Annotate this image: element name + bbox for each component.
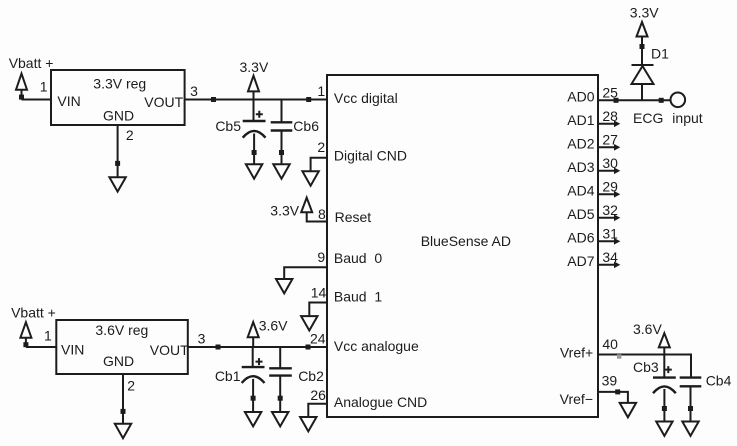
- capacitor Cb5 plus sign: [256, 111, 263, 118]
- svg-text:Vbatt +: Vbatt +: [11, 305, 56, 321]
- svg-text:Cb6: Cb6: [293, 118, 319, 134]
- svg-text:3.3V: 3.3V: [240, 59, 269, 75]
- svg-text:Vcc analogue: Vcc analogue: [334, 338, 419, 354]
- svg-text:GND: GND: [103, 107, 134, 123]
- svg-text:Digital CND: Digital CND: [334, 148, 407, 164]
- wire pin 2 stub: [311, 158, 327, 172]
- junction below Cb2: [278, 396, 283, 401]
- wire AD1 stub: [598, 123, 615, 125]
- wire AD3 stub: [598, 170, 615, 172]
- svg-text:9: 9: [317, 249, 325, 265]
- svg-text:Vref+: Vref+: [560, 344, 593, 360]
- wire Vbatt to VIN (top): [22, 99, 52, 101]
- svg-text:BlueSense AD: BlueSense AD: [421, 233, 511, 249]
- svg-text:ECG: ECG: [633, 110, 663, 126]
- junction on U3 GND stem: [121, 409, 126, 414]
- pin arrow AD3: [614, 168, 620, 175]
- capacitor Cb5 top plate: [243, 120, 266, 122]
- capacitor Cb2 plate 2: [269, 374, 292, 376]
- svg-text:27: 27: [602, 131, 618, 147]
- svg-text:AD1: AD1: [567, 112, 594, 128]
- svg-text:24: 24: [310, 330, 326, 346]
- capacitor Cb2 top stem: [279, 347, 281, 368]
- svg-text:40: 40: [602, 336, 618, 352]
- capacitor Cb3 bottom stem: [663, 389, 665, 422]
- svg-text:Vbatt +: Vbatt +: [9, 55, 54, 71]
- capacitor Cb5 bottom stem: [253, 134, 255, 165]
- pin arrow AD2: [614, 144, 620, 151]
- wire AD5 stub: [598, 217, 615, 219]
- capacitor Cb1 plus sign: [256, 358, 263, 365]
- svg-text:VOUT: VOUT: [150, 342, 189, 358]
- capacitor Cb6 plate 2: [271, 129, 293, 131]
- ground (Baud 1): [301, 316, 317, 330]
- wire U1 VOUT to Vcc digital rail: [185, 99, 327, 101]
- junction below Cb5: [252, 150, 257, 155]
- svg-text:VIN: VIN: [57, 93, 80, 109]
- svg-text:32: 32: [602, 202, 618, 218]
- svg-text:39: 39: [602, 373, 618, 389]
- ground (Digital CND): [302, 171, 318, 185]
- power flag arrow Vbatt (top): [16, 74, 27, 90]
- svg-text:Vcc digital: Vcc digital: [334, 90, 398, 106]
- svg-text:Analogue CND: Analogue CND: [334, 394, 427, 410]
- ground (Baud 0): [276, 279, 292, 293]
- regulator U1 3.3V reg body: [51, 70, 185, 125]
- regulator U3 3.6V reg body: [56, 320, 188, 374]
- wire AD7 stub: [598, 264, 615, 266]
- svg-text:3: 3: [198, 331, 206, 347]
- svg-text:14: 14: [311, 285, 327, 301]
- power flag arrow 3.6V (bottom middle): [248, 322, 259, 337]
- capacitor Cb1 top plate: [242, 366, 265, 368]
- svg-text:2: 2: [126, 127, 134, 143]
- power flag arrow Vbatt (bottom): [20, 322, 31, 338]
- junction on 3.6V rail (left): [216, 345, 221, 350]
- svg-text:2: 2: [127, 378, 135, 394]
- wire 3.3V to D1: [641, 37, 643, 66]
- wire Vbatt stem (top): [21, 90, 23, 100]
- svg-text:Cb3: Cb3: [633, 359, 659, 375]
- capacitor Cb4 plate 2: [680, 385, 702, 387]
- svg-text:Cb1: Cb1: [215, 368, 241, 384]
- svg-text:1: 1: [44, 327, 52, 343]
- power flag arrow 3.3V (top right): [637, 22, 648, 37]
- svg-text:Baud 1: Baud 1: [334, 289, 382, 305]
- capacitor Cb4 plate 1: [680, 376, 702, 378]
- svg-text:Vref−: Vref−: [560, 391, 593, 407]
- capacitor Cb5 curved plate: [243, 131, 266, 138]
- capacitor Cb6 bottom stem: [281, 131, 283, 165]
- wire AD2 stub: [598, 146, 615, 148]
- power flag arrow 3.3V (top middle): [248, 76, 259, 92]
- capacitor Cb4 bottom stem: [690, 386, 692, 421]
- svg-text:3: 3: [190, 83, 198, 99]
- ground (Analogue CND): [300, 417, 316, 431]
- ground (below Cb1): [245, 412, 261, 426]
- junction below Cb4: [688, 406, 693, 411]
- junction below Cb6: [279, 150, 284, 155]
- svg-text:Baud 0: Baud 0: [334, 250, 382, 266]
- capacitor Cb6 plate 1: [271, 121, 293, 123]
- svg-text:26: 26: [310, 387, 326, 403]
- capacitor Cb3 top plate: [653, 376, 676, 378]
- terminal circle ECG input: [671, 93, 686, 108]
- diode D1 cathode bar: [632, 64, 654, 66]
- junction on Vref- stub: [615, 389, 620, 394]
- svg-text:3.6V: 3.6V: [259, 318, 288, 334]
- svg-text:1: 1: [317, 83, 325, 99]
- wire U1 GND stem: [117, 125, 119, 177]
- junction on U1 GND stem: [115, 161, 120, 166]
- svg-text:28: 28: [602, 108, 618, 124]
- capacitor Cb3 curved plate: [653, 386, 676, 393]
- power flag arrow 3.3V (Reset): [301, 198, 312, 213]
- capacitor Cb5 top stem: [253, 100, 255, 122]
- IC U2 BlueSense AD body: [327, 75, 598, 417]
- wire pin 26 stub: [308, 404, 327, 417]
- wire Vref- stub: [598, 392, 628, 403]
- svg-text:34: 34: [602, 249, 618, 265]
- svg-text:3.6V reg: 3.6V reg: [95, 322, 148, 338]
- wire Baud 0 stub: [284, 267, 327, 279]
- ground (below Cb5): [246, 164, 262, 178]
- svg-text:3.6V: 3.6V: [633, 321, 662, 337]
- ground (below U3): [115, 424, 131, 438]
- capacitor Cb6 top stem: [281, 100, 283, 123]
- wire AD0 stub: [598, 99, 671, 101]
- svg-text:3.3V: 3.3V: [270, 203, 299, 219]
- svg-text:AD6: AD6: [567, 229, 594, 245]
- capacitor Cb1 curved plate: [242, 376, 265, 383]
- junction on D1 top stem: [640, 44, 645, 49]
- ground (below Cb2): [272, 412, 288, 426]
- svg-text:VIN: VIN: [61, 341, 84, 357]
- svg-text:AD7: AD7: [567, 253, 594, 269]
- ground (below U1): [109, 177, 125, 191]
- pin arrow AD4: [614, 191, 620, 198]
- svg-text:GND: GND: [103, 353, 134, 369]
- svg-text:AD2: AD2: [567, 135, 594, 151]
- svg-text:AD0: AD0: [567, 88, 594, 104]
- capacitor Cb1 bottom stem: [252, 379, 254, 412]
- capacitor Cb2 bottom stem: [279, 376, 281, 412]
- svg-text:8: 8: [318, 206, 326, 222]
- pin arrow AD5: [614, 215, 620, 222]
- wire Baud 1 stub: [309, 303, 327, 317]
- svg-text:3.3V: 3.3V: [630, 4, 659, 20]
- ground (below Cb3): [656, 422, 672, 436]
- svg-text:1: 1: [40, 79, 48, 95]
- wire AD4 stub: [598, 193, 615, 195]
- junction below Cb1: [251, 396, 256, 401]
- ground (Vref-): [620, 403, 636, 417]
- diode D1 triangle: [632, 66, 654, 84]
- svg-text:Reset: Reset: [335, 209, 372, 225]
- wire Vbatt stem (bottom): [25, 338, 27, 347]
- junction on 3.6V rail (right): [306, 345, 311, 350]
- junction (grey) on Vref+ wire: [617, 354, 621, 358]
- pin arrow AD7: [614, 262, 620, 269]
- junction at Vbatt (bottom): [23, 342, 28, 347]
- svg-text:VOUT: VOUT: [144, 94, 183, 110]
- power flag arrow 3.6V (bottom right): [659, 333, 670, 347]
- svg-text:D1: D1: [651, 46, 669, 62]
- wire Reset stub: [307, 212, 327, 221]
- junction on AD0 wire (left): [614, 98, 619, 103]
- wire 3.3V flag stem: [253, 91, 255, 99]
- ground (below Cb4): [682, 422, 698, 436]
- junction at Vbatt (top): [19, 95, 24, 100]
- svg-text:31: 31: [602, 225, 618, 241]
- wire Vref+ net: [598, 355, 691, 378]
- svg-text:Cb4: Cb4: [706, 372, 732, 388]
- svg-text:2: 2: [317, 139, 325, 155]
- capacitor Cb2 plate 1: [269, 367, 292, 369]
- svg-text:3.3V reg: 3.3V reg: [93, 75, 146, 91]
- pin arrow AD6: [614, 238, 620, 245]
- wire D1 to AD0 net: [641, 84, 643, 100]
- wire Vbatt to VIN (bottom): [26, 346, 56, 348]
- wire U3 VOUT to Vcc analogue rail: [188, 346, 327, 348]
- junction on 3.3V rail (right): [306, 97, 311, 102]
- wire U3 GND stem: [122, 374, 124, 424]
- capacitor Cb3 plus sign: [665, 366, 672, 373]
- wire AD6 stub: [598, 240, 615, 242]
- junction on 3.3V rail (left): [211, 97, 216, 102]
- svg-text:AD4: AD4: [567, 182, 594, 198]
- svg-text:input: input: [672, 110, 702, 126]
- svg-text:29: 29: [602, 178, 618, 194]
- ground (below Cb6): [273, 164, 289, 178]
- svg-text:AD3: AD3: [567, 159, 594, 175]
- junction on AD0 wire (right): [659, 98, 664, 103]
- svg-text:AD5: AD5: [567, 206, 594, 222]
- pin arrow AD1: [614, 121, 620, 128]
- junction below Cb3: [662, 406, 667, 411]
- svg-text:Cb2: Cb2: [298, 368, 324, 384]
- wire 3.6V flag to Cb3: [663, 347, 665, 377]
- wire 3.6V flag stem: [252, 337, 254, 347]
- svg-text:Cb5: Cb5: [215, 118, 241, 134]
- capacitor Cb1 top stem: [252, 347, 254, 367]
- svg-text:30: 30: [602, 155, 618, 171]
